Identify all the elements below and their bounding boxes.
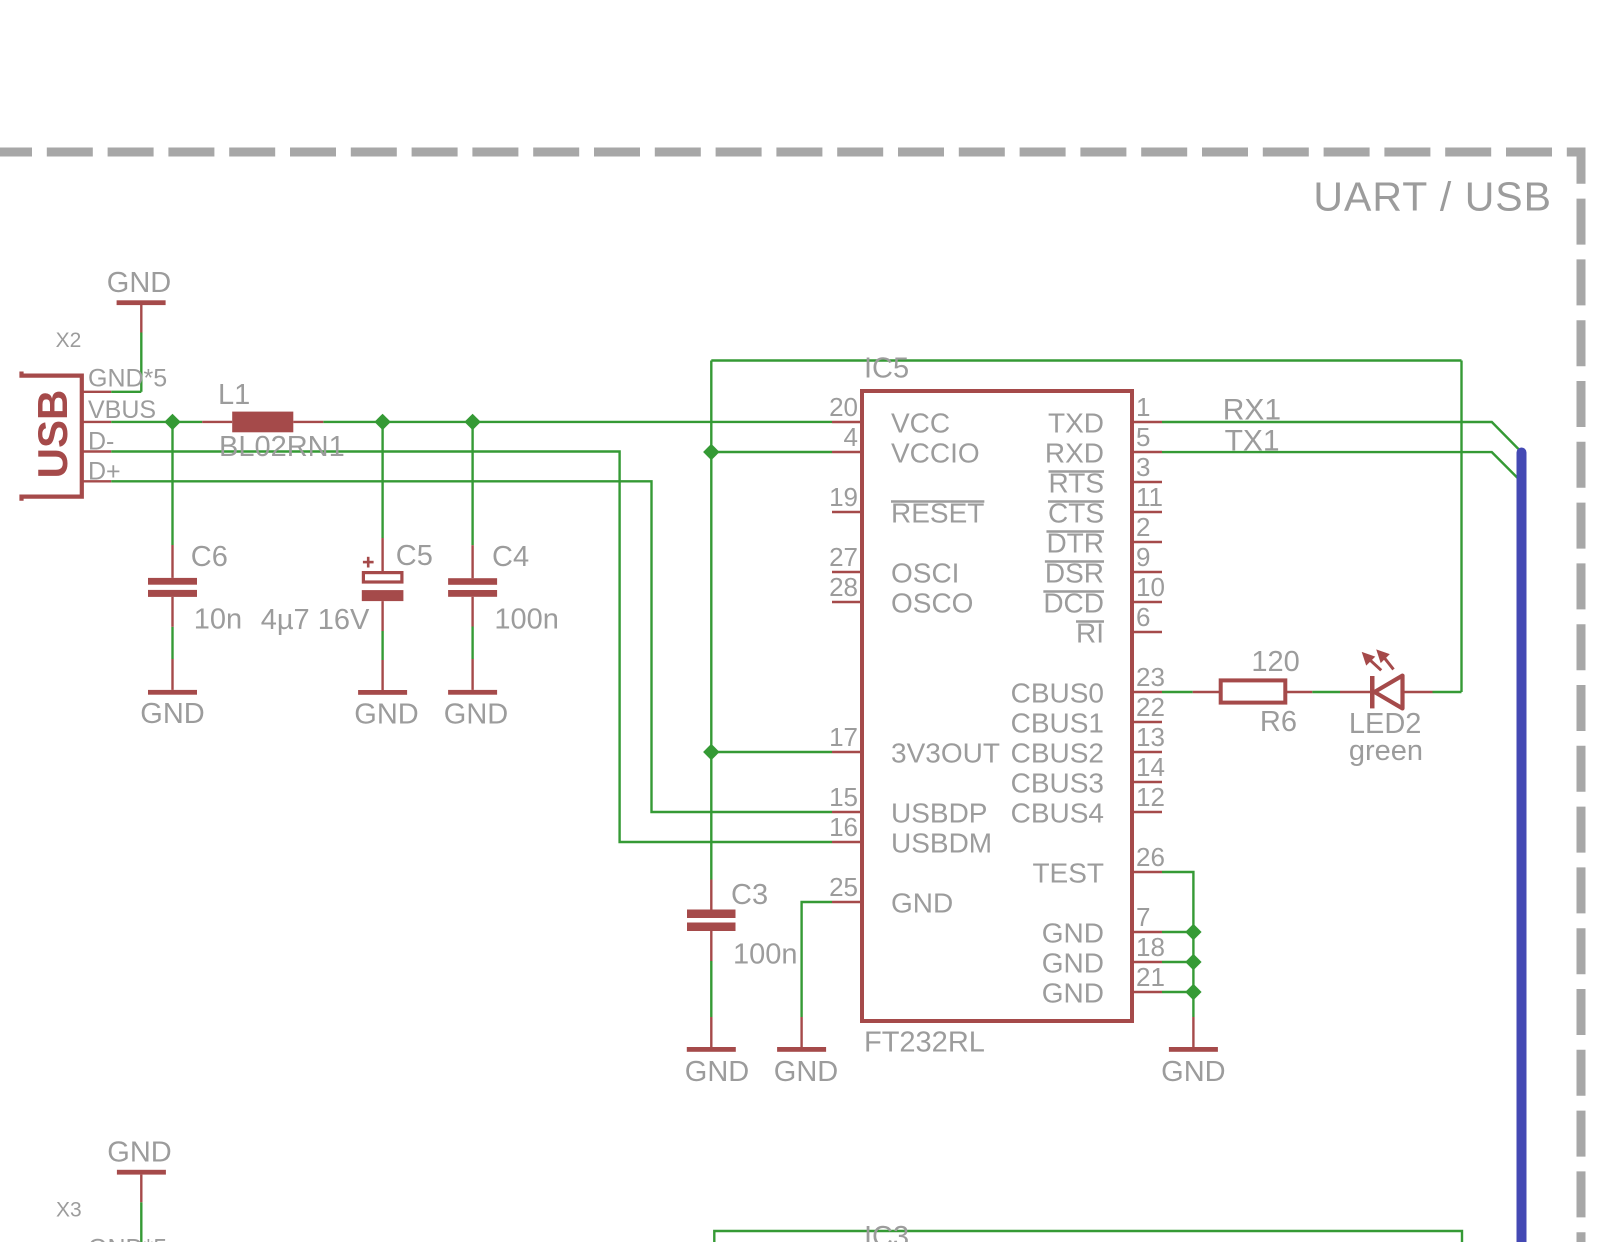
wire VCCIO net: vertical tap to IC5 pin 4: [711, 451, 832, 453]
svg-text:GND: GND: [1042, 948, 1104, 979]
svg-text:TXD: TXD: [1048, 408, 1104, 439]
svg-text:6: 6: [1136, 602, 1150, 632]
IC5 pin 7 GND: [1042, 902, 1162, 949]
wire C3 bottom to ground: [710, 961, 712, 1017]
IC5 pin 21 GND: [1042, 962, 1165, 1009]
IC5 pin 11 CTS: [1048, 482, 1163, 529]
ground symbol below C5: [354, 660, 418, 731]
junction GND pin 7: [1185, 924, 1201, 940]
wire C4 bottom to ground: [471, 627, 473, 660]
svg-text:GND: GND: [107, 267, 171, 299]
junction GND pin 18: [1185, 954, 1201, 970]
wire VCC net down to C4: [471, 422, 473, 545]
svg-text:GND: GND: [354, 699, 418, 731]
svg-text:12: 12: [1136, 782, 1165, 812]
svg-text:R6: R6: [1260, 706, 1297, 738]
junction VCC / C5: [374, 414, 390, 430]
wire GND net at X3: [140, 1202, 142, 1242]
svg-text:CBUS4: CBUS4: [1011, 798, 1104, 829]
IC5 pin 17 3V3OUT: [829, 722, 1000, 769]
wire USB D+ net to IC5 USBDP pin 15: [111, 481, 832, 812]
LED2 green: [1340, 649, 1433, 767]
svg-text:GND: GND: [685, 1056, 749, 1088]
svg-text:18: 18: [1136, 932, 1165, 962]
wire C6 bottom to ground: [171, 627, 173, 659]
IC5 pin 27 OSCI: [829, 542, 959, 589]
wire top net of IC3 section (cut off at bottom): [714, 1231, 1462, 1242]
wire 3V3 top horizontal net: [711, 359, 1461, 361]
svg-text:X2: X2: [56, 329, 82, 352]
svg-text:CBUS3: CBUS3: [1011, 768, 1104, 799]
wire C5 bottom to ground: [381, 631, 383, 660]
svg-text:11: 11: [1136, 482, 1163, 512]
ground symbol below IC5 pin 25: [774, 1017, 838, 1088]
junction VBUS / C6: [164, 414, 180, 430]
svg-text:D-: D-: [88, 428, 114, 456]
wire VBUS net down to C6: [171, 422, 173, 545]
wire TEST/GND net: IC5 pin 26 down to ground: [1162, 872, 1193, 1017]
ferrite bead L1 BL02RN1: [202, 379, 345, 463]
svg-text:GND*5: GND*5: [88, 1235, 167, 1242]
svg-text:22: 22: [1136, 692, 1165, 722]
svg-text:IC5: IC5: [864, 353, 909, 385]
svg-text:100n: 100n: [494, 604, 559, 636]
IC5 pin 14 CBUS3: [1011, 752, 1165, 799]
svg-text:GND: GND: [1042, 978, 1104, 1009]
svg-text:VCCIO: VCCIO: [891, 438, 980, 469]
ground symbol at X3 (bottom left): [107, 1137, 171, 1203]
svg-text:7: 7: [1136, 902, 1150, 932]
IC5 pin 4 VCCIO: [832, 422, 980, 469]
wire 3V3 vertical net x=711: [710, 361, 712, 880]
IC5 pin 22 CBUS1: [1011, 692, 1165, 739]
svg-text:GND: GND: [107, 1137, 171, 1169]
ground symbol below C3: [685, 1017, 749, 1088]
wire net R6 to LED2 cathode: [1312, 691, 1340, 693]
svg-text:10: 10: [1136, 572, 1165, 602]
svg-text:120: 120: [1251, 646, 1299, 678]
svg-text:9: 9: [1136, 542, 1150, 572]
svg-text:27: 27: [829, 542, 858, 572]
IC5 pin 9 DSR: [1045, 542, 1162, 589]
svg-text:GND: GND: [1161, 1056, 1225, 1088]
IC5 pin 18 GND: [1042, 932, 1165, 979]
svg-text:16: 16: [829, 812, 858, 842]
svg-text:USB: USB: [29, 390, 76, 479]
svg-text:RXD: RXD: [1045, 438, 1104, 469]
svg-text:15: 15: [829, 782, 858, 812]
IC5 pin 15 USBDP: [829, 782, 987, 829]
IC5 pin 16 USBDM: [829, 812, 992, 859]
svg-text:C6: C6: [191, 541, 228, 573]
svg-text:GND: GND: [140, 698, 204, 730]
svg-text:25: 25: [829, 872, 858, 902]
svg-text:5: 5: [1136, 422, 1150, 452]
ground symbol right of IC5 (pins 7/18/21/TEST): [1161, 1017, 1225, 1088]
svg-text:USBDM: USBDM: [891, 828, 992, 859]
wire LED anode to vertical: [1433, 691, 1462, 693]
capacitor C4 100n: [448, 541, 559, 636]
svg-text:21: 21: [1136, 962, 1165, 992]
svg-text:4µ7 16V: 4µ7 16V: [261, 604, 370, 636]
wire GND pin 18 stub: [1162, 961, 1193, 963]
svg-text:C5: C5: [396, 540, 433, 572]
svg-text:UART / USB: UART / USB: [1313, 174, 1552, 220]
IC5 pin 6 RI: [1076, 602, 1162, 649]
svg-text:green: green: [1349, 735, 1423, 767]
ground symbol below C6: [140, 659, 204, 730]
wire VBUS net: USB VBUS pin to L1 left pin: [111, 421, 202, 423]
wire 3V3 right vertical down to LED: [1460, 361, 1462, 693]
IC5 pin 25 GND: [829, 872, 953, 919]
junction VCC / C4: [464, 414, 480, 430]
svg-text:CBUS2: CBUS2: [1011, 738, 1104, 769]
capacitor C3 100n: [687, 879, 798, 971]
IC5 pin 10 DCD: [1043, 572, 1165, 619]
svg-text:L1: L1: [218, 379, 250, 411]
svg-text:OSCO: OSCO: [891, 588, 973, 619]
wire GND pin 7 stub: [1162, 931, 1193, 933]
svg-text:23: 23: [1136, 662, 1165, 692]
svg-text:10n: 10n: [194, 604, 242, 636]
svg-text:14: 14: [1136, 752, 1165, 782]
svg-text:FT232RL: FT232RL: [864, 1027, 985, 1059]
wire USB D- net to IC5 USBDM pin 16: [111, 452, 832, 843]
junction GND pin 21: [1185, 984, 1201, 1000]
wire 3V3OUT net tap to IC5 pin 17: [711, 751, 832, 753]
svg-text:13: 13: [1136, 722, 1165, 752]
wire GND pin 21 stub: [1162, 991, 1193, 993]
wire TX1 net from IC5 RXD pin 5 to bus: [1162, 452, 1522, 482]
IC5 pin 3 RTS: [1049, 452, 1163, 499]
svg-text:1: 1: [1136, 392, 1150, 422]
svg-text:VBUS: VBUS: [88, 396, 156, 424]
ground symbol below C4: [444, 659, 508, 731]
capacitor C5 4u7 16V (polarized): [261, 538, 433, 636]
junction VCCIO tap: [703, 444, 719, 460]
wire RX1 net from IC5 TXD pin 1 to bus: [1162, 422, 1522, 452]
IC5 pin 1 TXD: [1048, 392, 1162, 439]
svg-text:RX1: RX1: [1223, 394, 1281, 427]
svg-text:TEST: TEST: [1032, 858, 1104, 889]
svg-text:D+: D+: [88, 458, 121, 486]
svg-text:GND: GND: [891, 888, 953, 919]
IC5 pin 2 DTR: [1046, 512, 1162, 559]
bus (blue) on right edge: [1517, 453, 1527, 1242]
wire GND net from X2 GND*5 pin up to ground symbol: [140, 333, 142, 392]
IC U: IC5 FT232RL body: [862, 353, 1132, 1059]
svg-text:C4: C4: [492, 541, 529, 573]
svg-text:OSCI: OSCI: [891, 558, 959, 589]
svg-text:CBUS0: CBUS0: [1011, 678, 1104, 709]
junction 3V3OUT tap: [703, 744, 719, 760]
svg-text:X3: X3: [56, 1199, 82, 1222]
IC5 pin 23 CBUS0: [1011, 662, 1165, 709]
svg-text:3V3OUT: 3V3OUT: [891, 738, 1000, 769]
svg-text:BL02RN1: BL02RN1: [219, 431, 345, 463]
svg-text:3: 3: [1136, 452, 1150, 482]
svg-text:GND*5: GND*5: [88, 365, 167, 393]
IC5 pin 28 OSCO: [829, 572, 973, 619]
svg-text:GND: GND: [774, 1056, 838, 1088]
IC5 pin 20 VCC: [829, 392, 950, 439]
svg-text:C3: C3: [731, 879, 768, 911]
svg-text:TX1: TX1: [1225, 425, 1280, 458]
svg-text:20: 20: [829, 392, 858, 422]
svg-text:28: 28: [829, 572, 858, 602]
IC5 pin 12 CBUS4: [1011, 782, 1165, 829]
svg-text:4: 4: [844, 422, 858, 452]
IC5 pin 19 RESET: [829, 482, 984, 529]
connector X2 USB: [22, 329, 168, 501]
wire VCC net: L1 right pin to IC5 VCC pin 20: [323, 421, 832, 423]
svg-text:GND: GND: [444, 699, 508, 731]
svg-text:100n: 100n: [733, 939, 798, 971]
wire CBUS0 net: IC5 pin 23 to R6: [1162, 691, 1193, 693]
IC5 pin 26 TEST: [1032, 842, 1164, 889]
svg-text:USBDP: USBDP: [891, 798, 987, 829]
wire VCC net down to C5: [381, 422, 383, 538]
IC5 pin 13 CBUS2: [1011, 722, 1165, 769]
svg-text:CBUS1: CBUS1: [1011, 708, 1104, 739]
IC5 pin 5 RXD: [1045, 422, 1162, 469]
resistor R6 120: [1193, 646, 1313, 738]
svg-text:VCC: VCC: [891, 408, 950, 439]
capacitor C6 10n: [148, 541, 242, 636]
svg-text:26: 26: [1136, 842, 1165, 872]
svg-text:IC3: IC3: [864, 1221, 909, 1242]
svg-text:19: 19: [829, 482, 858, 512]
svg-text:2: 2: [1136, 512, 1150, 542]
wire GND net from IC5 pin 25 to ground symbol: [802, 902, 832, 1017]
svg-text:GND: GND: [1042, 918, 1104, 949]
svg-text:17: 17: [829, 722, 858, 752]
